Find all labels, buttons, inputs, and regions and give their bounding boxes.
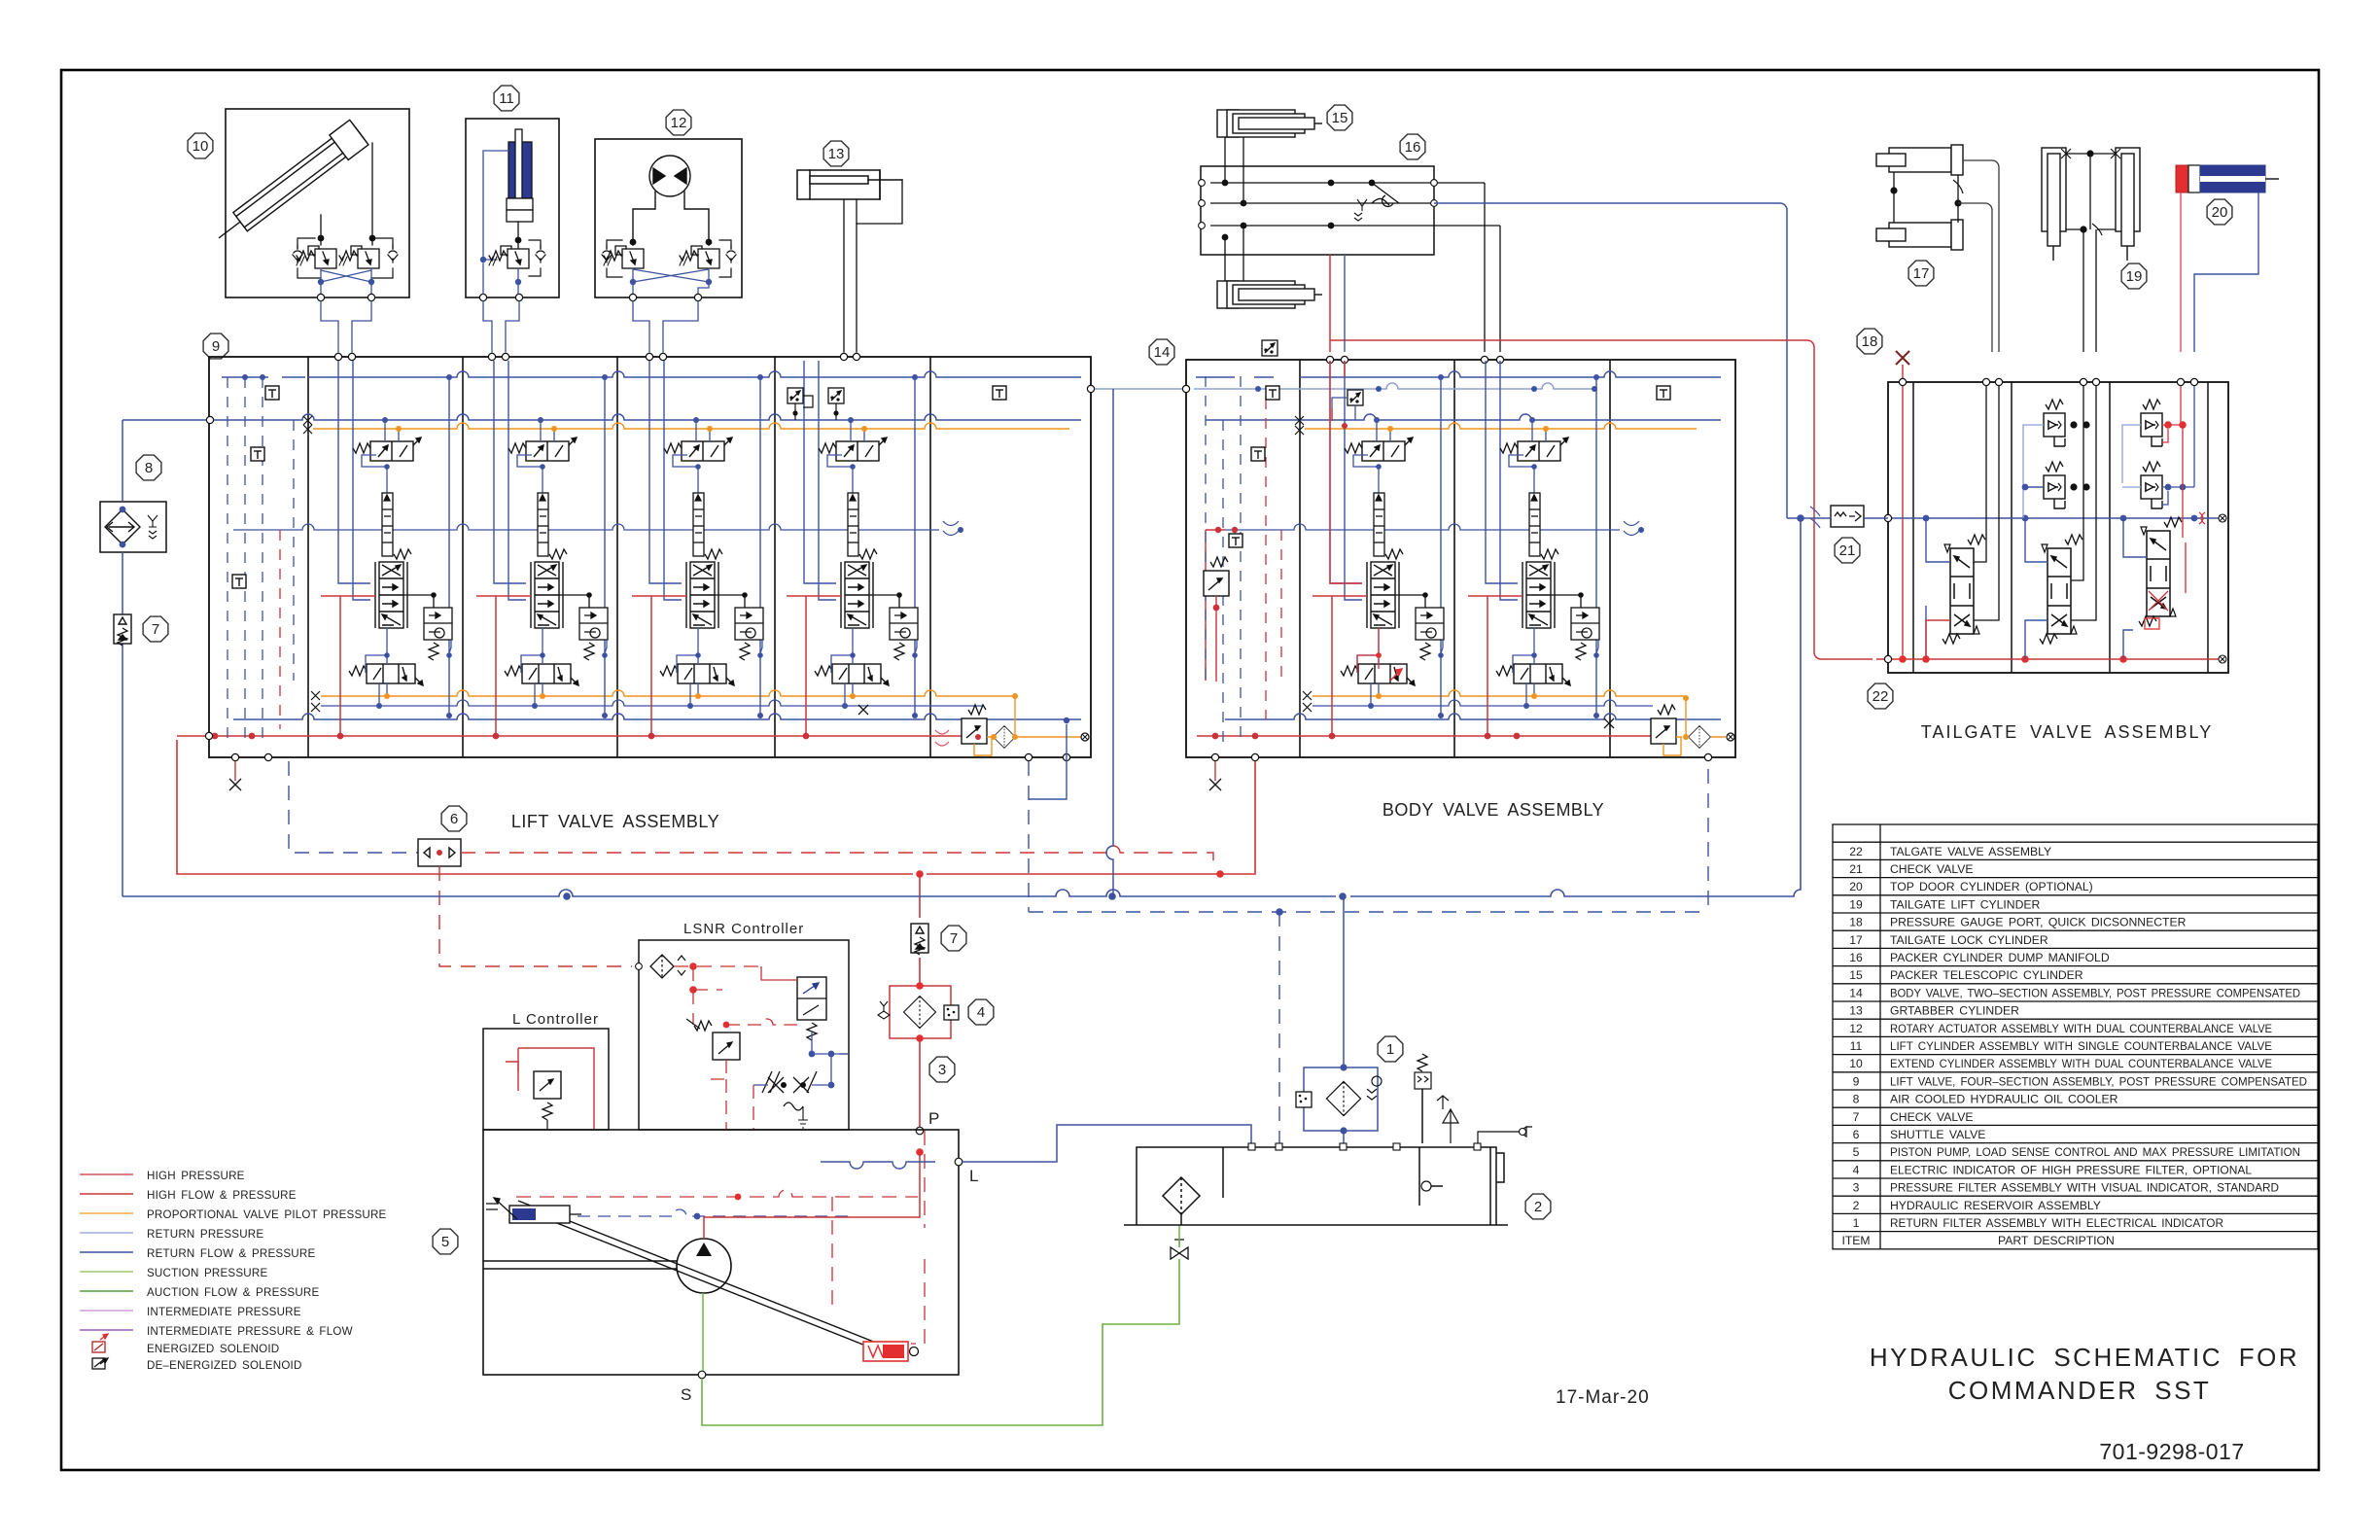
LS dashed blue from lift <box>289 761 418 853</box>
cyl10 wires to CB valves <box>321 143 372 245</box>
electric clogging indicator <box>1296 1092 1312 1107</box>
electric indicator 4 <box>944 1005 959 1020</box>
callout 1 <box>1378 1036 1403 1062</box>
svg-text:LIFT CYLINDER ASSEMBLY WITH SI: LIFT CYLINDER ASSEMBLY WITH SINGLE COUNT… <box>1890 1039 2272 1053</box>
svg-text:SHUTTLE VALVE: SHUTTLE VALVE <box>1890 1128 1985 1141</box>
suction strainer <box>1163 1177 1200 1214</box>
lift valve outer box <box>209 357 1091 757</box>
legend line AUCTION FLOW & PRESSURE <box>80 1290 133 1292</box>
svg-text:5: 5 <box>441 1234 449 1250</box>
blue net <box>753 1031 849 1085</box>
callout 11 <box>494 86 519 111</box>
section B pilot check lower <box>2044 462 2065 508</box>
svg-text:GRTABBER CYLINDER: GRTABBER CYLINDER <box>1890 1004 2019 1018</box>
dashed connections down <box>726 1079 753 1130</box>
divider <box>2011 382 2012 673</box>
mid dashed bus <box>1225 524 1620 530</box>
red supply bus bottom <box>177 740 1255 874</box>
internal baffles <box>1223 1147 1419 1206</box>
lift cylinder assembly box 11 <box>466 119 559 297</box>
svg-text:6: 6 <box>1853 1128 1860 1141</box>
inlet relief valve <box>1204 557 1229 596</box>
manifold internals <box>1210 166 1500 255</box>
svg-text:1: 1 <box>1386 1041 1394 1058</box>
svg-text:EXTEND CYLINDER ASSEMBLY WITH: EXTEND CYLINDER ASSEMBLY WITH DUAL COUNT… <box>1890 1057 2272 1070</box>
pilot pressure bus (orange) <box>313 423 1069 429</box>
divider <box>2207 382 2209 673</box>
svg-text:12: 12 <box>1849 1022 1863 1035</box>
proportional relief <box>713 1032 740 1060</box>
drain shut-off valve <box>1171 1247 1188 1259</box>
svg-text:21: 21 <box>1849 862 1863 876</box>
callout 15 <box>1327 105 1352 130</box>
svg-text:AIR COOLED HYDRAULIC OIL COOLE: AIR COOLED HYDRAULIC OIL COOLER <box>1890 1093 2118 1106</box>
green suction lines <box>702 1259 1179 1425</box>
svg-text:16: 16 <box>1849 951 1863 964</box>
red jump arcs on right <box>2199 512 2205 524</box>
svg-text:3: 3 <box>938 1062 946 1078</box>
outlet filter <box>994 726 1016 749</box>
red riser manifold to body valve / tailgate <box>1330 255 1872 659</box>
cyl20 blue wire <box>2194 192 2258 352</box>
svg-text:20: 20 <box>2212 204 2228 221</box>
svg-text:INTERMEDIATE PRESSURE: INTERMEDIATE PRESSURE <box>147 1306 301 1318</box>
svg-text:PACKER CYLINDER DUMP MANIFOLD: PACKER CYLINDER DUMP MANIFOLD <box>1890 951 2110 964</box>
red supply bus <box>1876 658 2219 660</box>
L port <box>955 1158 962 1166</box>
plugged drain below box <box>234 761 236 781</box>
red line pump to P <box>704 1154 920 1239</box>
svg-text:21: 21 <box>1839 542 1856 559</box>
solenoid indicator above box <box>1262 340 1277 356</box>
top ports <box>1899 378 2197 385</box>
dashed return bus <box>1196 371 1721 377</box>
svg-text:4: 4 <box>977 1004 985 1021</box>
callout 6 <box>441 806 467 831</box>
legend line PROPORTIONAL VALVE PILOT PRESSURE <box>80 1212 133 1214</box>
telescopic cylinder upper <box>1217 110 1322 137</box>
X mark <box>1604 718 1614 728</box>
svg-text:9: 9 <box>212 338 220 355</box>
red supply bus <box>177 735 968 737</box>
blue line body to check21 <box>1787 517 1888 519</box>
body valve outer box <box>1186 360 1735 757</box>
extend cylinder assembly box 10 <box>226 109 409 297</box>
svg-text:17: 17 <box>1913 265 1930 282</box>
svg-text:L: L <box>969 1167 978 1185</box>
legend line HIGH PRESSURE <box>80 1173 133 1175</box>
svg-text:PRESSURE GAUGE PORT, QUICK DIC: PRESSURE GAUGE PORT, QUICK DICSONNECTER <box>1890 916 2187 929</box>
section divider <box>307 357 309 757</box>
blue riser through cooler <box>122 420 123 896</box>
svg-text:8: 8 <box>1853 1093 1860 1106</box>
LS dashed red down to LSNR <box>439 866 632 966</box>
legend de-energized solenoid symbol <box>92 1358 108 1369</box>
blue return bus <box>1888 517 2219 519</box>
svg-text:15: 15 <box>1332 110 1348 126</box>
svg-text:ROTARY ACTUATOR ASSEMBLY WITH: ROTARY ACTUATOR ASSEMBLY WITH DUAL COUNT… <box>1890 1022 2272 1035</box>
svg-text:5: 5 <box>1853 1145 1860 1159</box>
divider <box>1912 382 1914 673</box>
svg-text:22: 22 <box>1849 845 1863 858</box>
lower orange bus <box>1312 690 1686 696</box>
cyl17 wires to tailgate valve <box>1958 160 1999 352</box>
plugged drain below box <box>1214 761 1216 781</box>
solenoid at inlet top <box>1347 390 1363 405</box>
return bus <box>122 414 1081 420</box>
solenoid valves section4 top <box>787 388 803 403</box>
work section B2 <box>1468 361 1599 739</box>
blue riser from body valve left <box>1106 389 1113 896</box>
legend energized solenoid symbol <box>92 1334 108 1352</box>
top ports <box>1248 1143 1481 1150</box>
work section 3 <box>632 361 763 739</box>
svg-text:PROPORTIONAL VALVE PILOT PRESS: PROPORTIONAL VALVE PILOT PRESSURE <box>147 1208 387 1221</box>
svg-text:LSNR Controller: LSNR Controller <box>683 921 804 937</box>
svg-text:PRESSURE FILTER ASSEMBLY WITH: PRESSURE FILTER ASSEMBLY WITH VISUAL IND… <box>1890 1181 2279 1195</box>
svg-text:2: 2 <box>1853 1199 1860 1212</box>
wires box11 to lift valve ports <box>483 301 519 352</box>
solid return bus <box>1206 414 1721 420</box>
svg-text:PART DESCRIPTION: PART DESCRIPTION <box>1998 1234 2115 1247</box>
blue drop at lift right <box>1029 724 1067 799</box>
callout 20 <box>2207 199 2232 225</box>
section divider <box>1609 360 1611 757</box>
outlet relief valve <box>1651 705 1676 744</box>
work section B1 <box>1312 361 1444 739</box>
svg-text:ELECTRIC INDICATOR OF HIGH PRE: ELECTRIC INDICATOR OF HIGH PRESSURE FILT… <box>1890 1163 2252 1176</box>
bypass check right <box>1367 1076 1382 1100</box>
pilot bus orange <box>1305 423 1697 429</box>
svg-text:RETURN PRESSURE: RETURN PRESSURE <box>147 1228 263 1241</box>
section C pilot check lower <box>2141 462 2162 508</box>
drive shaft <box>483 1261 677 1269</box>
svg-text:COMMANDER SST: COMMANDER SST <box>1948 1376 2212 1405</box>
outer box <box>1888 382 2228 673</box>
energized red lines body section 1 <box>1330 361 1362 583</box>
legend line SUCTION PRESSURE <box>80 1271 133 1273</box>
svg-text:TALGATE VALVE ASSEMBLY: TALGATE VALVE ASSEMBLY <box>1890 845 2051 858</box>
dump manifold box <box>1201 166 1434 255</box>
quick disconnect drain <box>1478 1127 1532 1143</box>
svg-text:S: S <box>681 1385 691 1404</box>
flow controls <box>762 1071 784 1093</box>
svg-text:AUCTION FLOW & PRESSURE: AUCTION FLOW & PRESSURE <box>147 1286 320 1299</box>
svg-text:11: 11 <box>1850 1039 1863 1053</box>
section divider <box>1299 360 1301 757</box>
section divider <box>1453 360 1455 757</box>
svg-text:HYDRAULIC SCHEMATIC FOR: HYDRAULIC SCHEMATIC FOR <box>1870 1343 2299 1372</box>
section C valve <box>2139 517 2182 626</box>
callout 7 <box>143 616 168 642</box>
svg-text:L Controller: L Controller <box>512 1011 599 1028</box>
filler <box>1437 1096 1458 1143</box>
svg-text:RETURN FLOW & PRESSURE: RETURN FLOW & PRESSURE <box>147 1247 315 1260</box>
manifold to body valve wires <box>1485 183 1500 352</box>
port circles box12 <box>629 294 636 300</box>
svg-text:3: 3 <box>1853 1181 1860 1195</box>
plugged port X <box>858 705 868 715</box>
cross pilot lines 12 <box>633 268 709 294</box>
extend telescopic cylinder (diagonal) <box>210 120 368 250</box>
svg-text:7: 7 <box>152 621 159 638</box>
legend line HIGH FLOW & PRESSURE <box>80 1193 133 1195</box>
counterbalance valve 10-B <box>339 246 379 268</box>
wires cyl13 down to lift valve section 4 <box>844 180 902 352</box>
breather <box>1415 1072 1431 1089</box>
shuttle valve 6 <box>418 839 461 866</box>
cooler filter diamond <box>105 509 140 544</box>
light return line to lift assembly <box>1091 388 1186 390</box>
port circles box10 <box>317 294 324 300</box>
counterbalance valve 12-A <box>604 246 644 268</box>
red crossing jump <box>935 730 949 746</box>
divider <box>2109 382 2111 673</box>
blue return bus <box>122 518 1801 896</box>
wavy drain <box>784 1102 803 1110</box>
section divider <box>774 357 776 757</box>
svg-text:RETURN FILTER ASSEMBLY WITH EL: RETURN FILTER ASSEMBLY WITH ELECTRICAL I… <box>1890 1216 2223 1230</box>
svg-text:22: 22 <box>1872 688 1889 705</box>
svg-text:18: 18 <box>1862 333 1878 350</box>
svg-text:TOP DOOR CYLINDER (OPTIONAL): TOP DOOR CYLINDER (OPTIONAL) <box>1890 880 2093 893</box>
svg-text:701-9298-017: 701-9298-017 <box>2099 1439 2244 1464</box>
svg-text:14: 14 <box>1849 986 1863 999</box>
internal dashed pilot lines <box>516 1190 918 1197</box>
red supply bus <box>1197 735 1651 737</box>
callout 10 <box>188 133 213 158</box>
svg-text:HYDRAULIC RESERVOIR ASSEMBLY: HYDRAULIC RESERVOIR ASSEMBLY <box>1890 1199 2101 1212</box>
svg-text:PACKER TELESCOPIC CYLINDER: PACKER TELESCOPIC CYLINDER <box>1890 968 2083 982</box>
red mid line <box>1206 530 1225 681</box>
check valves sides <box>293 245 302 262</box>
callout 5 <box>433 1229 458 1254</box>
LS dashed red to right <box>461 846 1213 869</box>
cross pilot lines 10 <box>321 268 371 294</box>
legend line INTERMEDIATE PRESSURE & FLOW <box>80 1329 133 1331</box>
counterbalance valve 11 <box>489 246 529 268</box>
callout 17 <box>1908 261 1934 286</box>
cooler box <box>100 502 166 552</box>
svg-text:10: 10 <box>192 138 209 155</box>
cooler line dots <box>120 507 126 513</box>
lower return bus <box>233 714 1081 719</box>
section A valve <box>1942 535 1985 644</box>
callout 22 <box>1868 683 1893 709</box>
svg-text:20: 20 <box>1849 880 1863 893</box>
work section 4 <box>787 361 918 739</box>
top ports <box>1326 356 1503 363</box>
port circles box11 <box>479 294 486 300</box>
svg-text:BODY VALVE ASSEMBLY: BODY VALVE ASSEMBLY <box>1382 800 1604 820</box>
svg-text:19: 19 <box>1849 897 1863 911</box>
cyl19 wires down <box>2083 229 2096 352</box>
svg-text:17-Mar-20: 17-Mar-20 <box>1556 1387 1650 1408</box>
legend line INTERMEDIATE PRESSURE <box>80 1310 133 1312</box>
test points <box>1266 386 1279 400</box>
control piston <box>509 1206 570 1223</box>
callout 16 <box>1400 134 1425 159</box>
outlet filter <box>1689 726 1711 749</box>
servo piston (red) <box>863 1342 908 1361</box>
svg-text:13: 13 <box>1849 1004 1863 1018</box>
manifold check valve <box>1372 183 1399 206</box>
dashed blue LS link lift-body-reservoir <box>1029 761 1708 912</box>
pump circle <box>677 1239 731 1293</box>
svg-text:TAILGATE VALVE ASSEMBLY: TAILGATE VALVE ASSEMBLY <box>1921 722 2213 742</box>
wavy on cyl17 line <box>1953 180 1963 193</box>
callout 9 <box>203 333 228 359</box>
callout 2 <box>1525 1194 1551 1219</box>
svg-text:HIGH PRESSURE: HIGH PRESSURE <box>147 1170 245 1182</box>
cooler bypass check <box>148 515 157 539</box>
rotary actuator <box>633 156 709 245</box>
red to P port <box>919 1038 921 1131</box>
upper tank bus <box>222 371 1081 377</box>
inlet section dashed lines <box>227 377 294 744</box>
cyl11 pilot line <box>483 151 508 260</box>
wires box12 to lift valve ports <box>633 301 698 352</box>
blue line manifold to tailgate <box>1434 203 1787 518</box>
inlet filter <box>650 955 674 978</box>
wires box10 to lift valve ports <box>321 301 371 352</box>
svg-text:P: P <box>928 1109 939 1128</box>
svg-text:LIFT VALVE, FOUR–SECTION ASSEM: LIFT VALVE, FOUR–SECTION ASSEMBLY, POST … <box>1890 1074 2307 1088</box>
lower return bus <box>1225 714 1721 719</box>
svg-text:ENERGIZED SOLENOID: ENERGIZED SOLENOID <box>147 1343 279 1355</box>
section C pilot check upper <box>2141 400 2162 446</box>
cyl20 red wire <box>2180 192 2182 352</box>
cyl11 wire down <box>517 222 519 249</box>
lower pilot bus (orange) <box>321 690 1015 696</box>
svg-text:15: 15 <box>1849 968 1863 982</box>
svg-text:INTERMEDIATE PRESSURE & FLOW: INTERMEDIATE PRESSURE & FLOW <box>147 1325 353 1338</box>
svg-text:1: 1 <box>1853 1216 1860 1230</box>
svg-text:TAILGATE LOCK CYLINDER: TAILGATE LOCK CYLINDER <box>1890 933 2048 947</box>
callout 14 <box>1149 339 1174 365</box>
work section 1 <box>321 361 452 739</box>
svg-text:LIFT VALVE ASSEMBLY: LIFT VALVE ASSEMBLY <box>511 812 719 831</box>
check valve 7 <box>114 614 131 646</box>
light return bus inside <box>1194 383 1594 389</box>
right edge port <box>1081 733 1089 741</box>
svg-text:9: 9 <box>1853 1074 1860 1088</box>
svg-text:16: 16 <box>1405 139 1421 156</box>
svg-text:CHECK VALVE: CHECK VALVE <box>1890 862 1974 876</box>
section divider <box>929 357 931 757</box>
section B valve <box>2040 535 2082 644</box>
svg-text:8: 8 <box>145 460 153 476</box>
grabber cylinder 13 <box>823 141 849 166</box>
svg-text:19: 19 <box>2126 268 2143 285</box>
mid LS bus <box>233 524 939 530</box>
blue riser to bus <box>1343 896 1345 1067</box>
section B pilot check upper <box>2044 400 2065 446</box>
inlet dashed lines <box>1206 376 1281 744</box>
callout 7 <box>941 926 966 951</box>
svg-text:13: 13 <box>828 146 845 162</box>
callout 21 <box>1835 538 1860 563</box>
lift cylinder (vertical, blue) <box>507 129 533 222</box>
section divider <box>462 357 464 757</box>
level gauge <box>1421 1181 1431 1191</box>
callout 12 <box>666 110 691 135</box>
legend line RETURN PRESSURE <box>80 1232 133 1234</box>
section divider <box>616 357 618 757</box>
svg-text:10: 10 <box>1849 1057 1863 1070</box>
bottom ports <box>1211 753 1218 760</box>
legend line RETURN FLOW & PRESSURE <box>80 1251 133 1253</box>
svg-text:18: 18 <box>1849 916 1863 929</box>
svg-text:14: 14 <box>1154 344 1171 361</box>
right edge port <box>1727 733 1734 741</box>
svg-text:12: 12 <box>671 115 687 131</box>
svg-text:2: 2 <box>1534 1199 1542 1215</box>
cyl15 wires to manifold <box>1225 137 1243 281</box>
S suction <box>698 1371 706 1379</box>
svg-text:DE–ENERGIZED SOLENOID: DE–ENERGIZED SOLENOID <box>147 1359 302 1372</box>
counterbalance valve 12-B <box>680 246 719 268</box>
top port circles <box>334 353 859 360</box>
blue L line to reservoir <box>962 1125 1251 1162</box>
swash plate diagonal <box>515 1201 881 1350</box>
svg-text:4: 4 <box>1853 1163 1860 1176</box>
telescopic cylinder lower <box>1217 281 1322 308</box>
work section 2 <box>476 361 608 739</box>
svg-text:CHECK VALVE: CHECK VALVE <box>1890 1110 1974 1124</box>
lower dashed blue <box>321 700 982 706</box>
svg-text:7: 7 <box>1853 1110 1860 1124</box>
visual indicator left <box>878 1001 890 1019</box>
outlet relief valve <box>962 705 987 744</box>
check valve 21 <box>1831 506 1864 527</box>
counterbalance valve 10-A <box>297 246 336 268</box>
svg-text:ITEM: ITEM <box>1841 1234 1870 1247</box>
test points <box>265 386 279 400</box>
lower dashed blue <box>1312 700 1653 706</box>
bottom ports <box>231 753 238 760</box>
svg-text:17: 17 <box>1849 933 1863 947</box>
wavy left of 21 <box>1810 507 1820 528</box>
callout 8 <box>136 455 161 480</box>
svg-text:11: 11 <box>499 90 514 107</box>
red drop to filter <box>919 874 921 986</box>
rotary actuator assembly box 12 <box>595 139 742 297</box>
svg-text:7: 7 <box>950 930 958 947</box>
svg-text:TAILGATE LIFT CYLINDER: TAILGATE LIFT CYLINDER <box>1890 897 2041 911</box>
svg-text:PISTON PUMP, LOAD SENSE CONTRO: PISTON PUMP, LOAD SENSE CONTROL AND MAX … <box>1890 1145 2300 1159</box>
svg-text:6: 6 <box>450 811 458 827</box>
svg-text:HIGH FLOW & PRESSURE: HIGH FLOW & PRESSURE <box>147 1189 297 1202</box>
callout 19 <box>2121 263 2147 289</box>
svg-text:BODY VALVE, TWO–SECTION ASSEMB: BODY VALVE, TWO–SECTION ASSEMBLY, POST P… <box>1890 986 2300 999</box>
two position valve <box>797 977 826 1020</box>
svg-text:SUCTION PRESSURE: SUCTION PRESSURE <box>147 1267 267 1279</box>
